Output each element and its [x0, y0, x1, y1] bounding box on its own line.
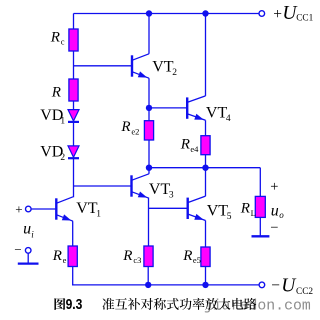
wire VT2 base branch [74, 65, 133, 67]
label Re4 [180, 136, 199, 154]
svg-text:+: + [270, 179, 278, 195]
svg-text:2: 2 [172, 68, 177, 78]
label Re5 [182, 248, 201, 265]
node top rail junction B [202, 10, 208, 16]
svg-text:o: o [279, 210, 284, 220]
wire Re2 to output node [148, 140, 150, 168]
svg-text:c: c [61, 37, 65, 47]
node VT2 emitter node [146, 105, 152, 111]
wire output to RL [259, 168, 261, 197]
svg-text:VT: VT [207, 203, 229, 220]
label Re2 [120, 119, 139, 137]
wire Rc3 to bottom rail [147, 267, 149, 285]
wire VT1 emitter to Re [72, 221, 74, 246]
svg-text:CC1: CC1 [296, 14, 313, 24]
wire Re5 to bottom rail [205, 267, 207, 285]
svg-text:e4: e4 [190, 144, 199, 154]
node output node left [146, 165, 152, 171]
transistor VT2 [132, 54, 149, 78]
resistor Re [68, 246, 77, 267]
label uo [271, 202, 285, 220]
svg-text:4: 4 [226, 114, 231, 124]
diode VD2 [68, 146, 79, 158]
svg-text:e: e [63, 255, 67, 265]
label Rc [50, 29, 65, 46]
resistor R [69, 79, 78, 101]
wire VT3 collector to output node [148, 168, 150, 174]
svg-text:VT: VT [149, 181, 171, 198]
resistor Re5 [201, 247, 210, 267]
wire VT4 base branch [149, 107, 187, 109]
label VD2 [40, 143, 65, 163]
wire output node rail [149, 167, 260, 169]
wire Re4 to output node [205, 155, 207, 168]
svg-text:L: L [251, 208, 256, 218]
label caption text [102, 298, 256, 310]
svg-text:3: 3 [169, 191, 174, 201]
wire top +Ucc1 rail [74, 13, 260, 15]
label VD1 [40, 107, 65, 127]
svg-text:−: − [270, 220, 278, 236]
wire VT1 base to input terminal [31, 208, 56, 210]
svg-text:9.3: 9.3 [66, 296, 83, 313]
terminal input - terminal [25, 248, 31, 254]
transistor VT5 [188, 196, 206, 220]
wire RL to ground [259, 217, 261, 236]
wire bottom -Ucc2 rail [72, 284, 259, 286]
svg-text:R: R [180, 136, 190, 152]
svg-text:CC2: CC2 [296, 287, 313, 297]
diode VD1 [68, 110, 79, 122]
label VT4 [206, 104, 231, 124]
wire VT5 emitter to Re5 [205, 221, 207, 248]
wire left column top [73, 14, 75, 30]
resistor Re4 [201, 136, 210, 155]
svg-text:c3: c3 [133, 255, 141, 265]
node bottom rail junction right [202, 282, 208, 288]
svg-text:VT: VT [206, 104, 228, 121]
wire Rc to R [73, 51, 75, 79]
svg-text:−: − [14, 242, 21, 257]
label VT2 [152, 58, 177, 78]
svg-text:R: R [52, 248, 62, 264]
ground under RL [252, 235, 270, 237]
svg-text:1: 1 [60, 117, 65, 127]
resistor RL [255, 196, 265, 217]
svg-text:+: + [273, 6, 282, 23]
transistor VT3 [132, 174, 150, 198]
wire VT4 emitter to Re4 [205, 120, 207, 135]
svg-text:R: R [120, 119, 130, 135]
transistor VT4 [187, 96, 205, 120]
wire VT4 collector to top rail [205, 14, 207, 96]
label ui [23, 221, 34, 240]
svg-text:1: 1 [96, 210, 101, 220]
label -Ucc2 [271, 276, 313, 297]
label Rc3 [122, 248, 141, 265]
svg-text:−: − [271, 277, 280, 294]
node top rail junction A [146, 10, 152, 16]
svg-text:2: 2 [60, 153, 65, 163]
wire input - terminal stem [27, 253, 29, 263]
ground under input - terminal [18, 262, 39, 264]
node output node right [202, 165, 208, 171]
wire VD1 to VD2 [73, 122, 75, 146]
svg-text:+: + [15, 201, 22, 216]
label caption 图9.3 [54, 296, 82, 313]
label VT1 [76, 200, 101, 220]
svg-text:R: R [50, 29, 60, 45]
wire node to Re2 [148, 108, 150, 121]
wire VT2 emitter down to node [148, 78, 150, 108]
svg-text:jiaredon.com: jiaredon.com [204, 299, 311, 315]
label VT5 [207, 203, 232, 223]
wire VD2 down to VT1 collector [73, 158, 75, 197]
wire Re to bottom rail [72, 267, 74, 285]
svg-text:u: u [23, 221, 31, 238]
transistor VT1 [56, 197, 73, 221]
svg-text:U: U [281, 276, 297, 297]
wire R to VD1 [73, 101, 75, 110]
wire VT3 emitter down [148, 198, 150, 246]
wire VT3 base branch [74, 185, 132, 187]
svg-text:R: R [122, 248, 132, 264]
svg-text:VT: VT [152, 58, 174, 75]
svg-text:u: u [271, 202, 279, 219]
resistor Rc3 [144, 246, 153, 267]
terminal +Ucc1 terminal [259, 11, 265, 17]
resistor Re2 [144, 121, 153, 140]
terminal -Ucc2 terminal [259, 282, 265, 288]
wire VT5 base branch [149, 207, 188, 209]
svg-text:R: R [182, 248, 192, 264]
label +Ucc1 [273, 3, 313, 24]
label VT3 [149, 181, 174, 201]
svg-text:e5: e5 [193, 255, 201, 265]
wire VT2 collector to top rail [148, 14, 150, 54]
label Re [52, 248, 67, 265]
svg-text:VT: VT [76, 200, 98, 217]
wire VT5 collector to output node [205, 168, 207, 197]
svg-text:5: 5 [227, 212, 232, 222]
resistor Rc [69, 29, 78, 51]
label RL [240, 201, 256, 218]
terminal input + terminal [26, 206, 32, 212]
node bottom rail junction left [145, 282, 151, 288]
svg-text:R: R [240, 201, 250, 217]
svg-text:R: R [51, 84, 61, 100]
svg-text:e2: e2 [131, 127, 139, 137]
